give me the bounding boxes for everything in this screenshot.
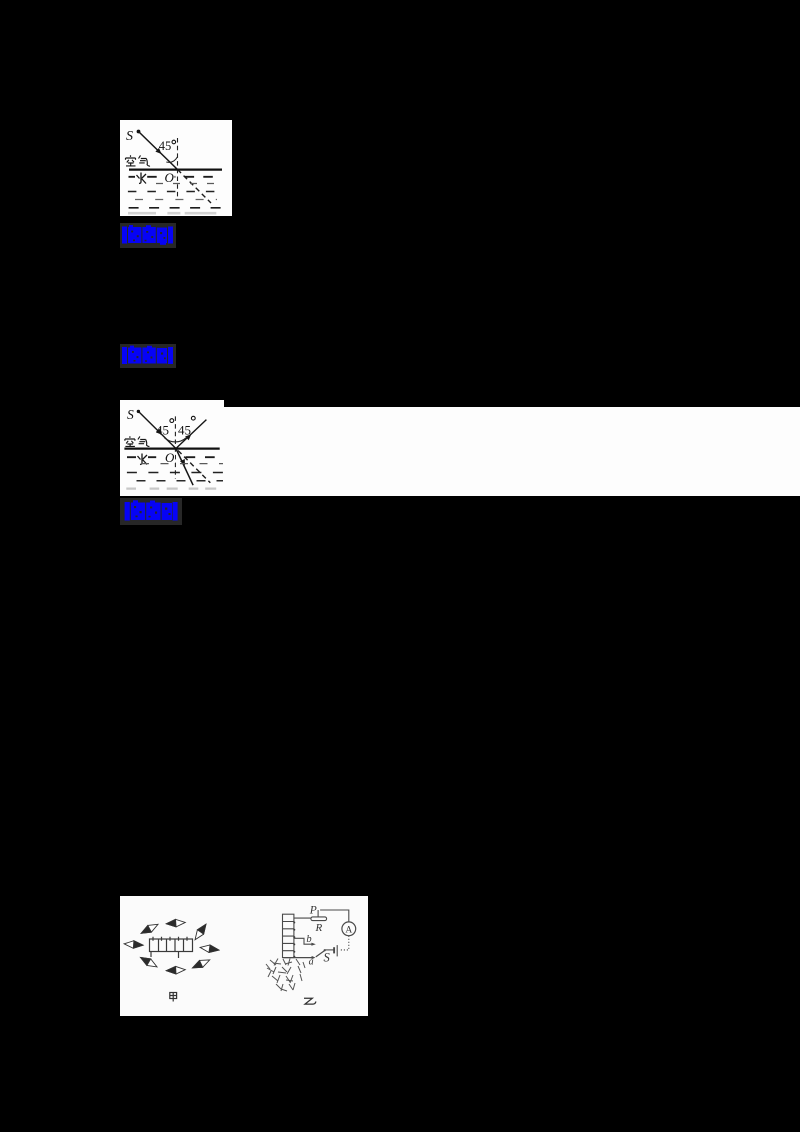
svg-text:O: O bbox=[165, 170, 175, 185]
switch lever bbox=[316, 950, 325, 957]
battery cell bbox=[336, 945, 338, 956]
incident ray bbox=[138, 411, 176, 448]
label 甲 (drawn) bbox=[170, 993, 177, 1002]
water dashes row 1 bbox=[127, 456, 221, 458]
answer label 2 【解析】 (blue pseudo-glyphs) bbox=[120, 344, 176, 368]
svg-text:P: P bbox=[309, 905, 317, 917]
dashed continuation ray bbox=[178, 451, 210, 483]
incident arrowhead bbox=[155, 148, 161, 154]
rheostat R body bbox=[311, 917, 327, 921]
reflected ray bbox=[176, 420, 207, 449]
angle arc bbox=[165, 438, 187, 442]
incident arrowhead bbox=[156, 429, 162, 435]
svg-text:45: 45 bbox=[178, 423, 191, 438]
water label 水 (drawn) bbox=[135, 172, 147, 184]
water dashes row 1 bbox=[129, 176, 222, 178]
coil turn dots on right edge bbox=[293, 922, 295, 958]
iron filings under solenoid bbox=[266, 959, 305, 992]
point O label bbox=[164, 172, 175, 183]
normal dashed line bbox=[177, 138, 179, 200]
figure 2: reflection+refraction diagram box bbox=[120, 400, 224, 496]
white strip right of figure 2 bbox=[224, 407, 800, 496]
source dot bbox=[137, 410, 140, 413]
normal dashed line bbox=[174, 416, 176, 478]
wire battery to switch pivot bbox=[325, 949, 334, 951]
water dashes row 4 bbox=[137, 480, 224, 482]
source dot bbox=[137, 130, 141, 134]
answer label 3 【详解】 (blue pseudo-glyphs) bbox=[120, 498, 182, 525]
ammeter A bbox=[342, 922, 356, 936]
incident ray bbox=[139, 132, 178, 170]
svg-text:45: 45 bbox=[159, 139, 172, 153]
water dashes row 3 bbox=[127, 472, 223, 474]
wire solenoid top to rheostat bbox=[294, 917, 311, 919]
svg-text:R: R bbox=[315, 922, 323, 934]
rheostat slider bbox=[317, 910, 319, 917]
svg-text:a: a bbox=[309, 957, 314, 968]
dotted wire ammeter to battery bbox=[340, 936, 349, 950]
svg-text:b: b bbox=[306, 934, 311, 945]
svg-text:S: S bbox=[127, 407, 134, 422]
svg-text:S: S bbox=[324, 950, 331, 964]
water dashes row 2 (light) bbox=[156, 183, 215, 185]
answer label 1 【答案】 (blue pseudo-glyphs) bbox=[120, 223, 176, 248]
air label 空气 (drawn) bbox=[125, 436, 149, 446]
contact b wire bbox=[294, 938, 312, 944]
water dashes row 5 bbox=[129, 207, 221, 209]
contact a wire to solenoid bbox=[283, 957, 313, 959]
compass needles around solenoid bbox=[124, 919, 220, 975]
water label 水 (drawn) bbox=[136, 453, 148, 465]
water dashes row 2 (light) bbox=[141, 463, 223, 465]
water dashes row 6 (faint wide) bbox=[128, 212, 216, 215]
wire P to ammeter bbox=[320, 910, 349, 922]
water surface line bbox=[124, 448, 219, 450]
right solenoid (乙) vertical coil bbox=[283, 914, 294, 957]
refracted arrowhead bbox=[180, 459, 185, 466]
label 乙 (drawn) bbox=[304, 998, 316, 1004]
air label 空气 (drawn) bbox=[126, 155, 151, 166]
svg-text:S: S bbox=[126, 129, 133, 144]
reflected arrowhead bbox=[185, 434, 191, 440]
point O label bbox=[164, 452, 175, 463]
angle arc bbox=[166, 157, 177, 162]
water dashes row 4 (light) bbox=[135, 199, 217, 201]
figure 1: refraction diagram box bbox=[120, 120, 232, 216]
left solenoid (甲) coil body bbox=[150, 937, 193, 958]
water dashes row 5 (faint wide) bbox=[126, 488, 216, 490]
figure 3: solenoid experiment box bbox=[120, 896, 368, 1016]
refracted dashed ray bbox=[178, 170, 212, 204]
svg-text:O: O bbox=[165, 450, 175, 465]
svg-text:45: 45 bbox=[156, 423, 169, 438]
water dashes row 3 bbox=[128, 191, 221, 193]
refracted solid ray bbox=[176, 449, 193, 486]
water surface line bbox=[129, 169, 222, 171]
svg-text:A: A bbox=[345, 925, 352, 935]
